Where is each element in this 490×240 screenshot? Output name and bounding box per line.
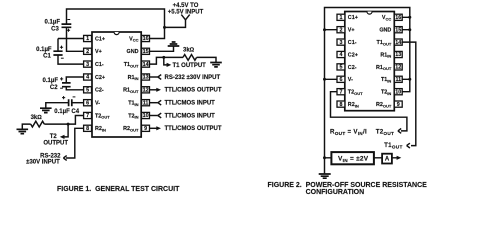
svg-text:T1OUT: T1OUT: [377, 40, 392, 46]
svg-text:T2IN: T2IN: [381, 90, 391, 96]
svg-text:±30V INPUT: ±30V INPUT: [26, 160, 60, 166]
svg-text:C2+: C2+: [95, 75, 105, 81]
svg-text:R1OUT: R1OUT: [376, 65, 392, 71]
svg-text:T2OUT: T2OUT: [95, 113, 110, 119]
svg-text:3: 3: [86, 62, 89, 68]
svg-text:12: 12: [395, 65, 401, 71]
svg-text:15: 15: [143, 49, 149, 55]
svg-text:R2IN: R2IN: [348, 102, 359, 108]
svg-text:R2OUT: R2OUT: [376, 102, 392, 108]
svg-text:15: 15: [395, 27, 401, 33]
svg-text:GND: GND: [127, 49, 139, 55]
svg-text:T1OUT: T1OUT: [124, 62, 139, 68]
svg-text:C1: C1: [43, 53, 51, 59]
svg-text:0.1µF: 0.1µF: [45, 20, 61, 26]
svg-text:10: 10: [395, 89, 401, 95]
svg-text:GND: GND: [379, 28, 391, 34]
svg-text:TTL/CMOS INPUT: TTL/CMOS INPUT: [165, 113, 216, 119]
svg-text:V+: V+: [95, 49, 102, 55]
svg-text:2: 2: [340, 27, 343, 33]
svg-text:10: 10: [143, 113, 149, 119]
svg-text:R1IN: R1IN: [128, 75, 139, 81]
svg-text:TTL/CMOS OUTPUT: TTL/CMOS OUTPUT: [165, 126, 222, 132]
svg-text:5: 5: [86, 88, 89, 94]
svg-text:7: 7: [340, 89, 343, 95]
svg-text:C2-: C2-: [348, 65, 357, 71]
svg-text:T2: T2: [50, 134, 58, 140]
svg-text:C1-: C1-: [348, 40, 357, 46]
svg-text:1: 1: [340, 15, 343, 21]
svg-text:FIGURE 1. GENERAL TEST CIRCUI: FIGURE 1. GENERAL TEST CIRCUIT: [57, 186, 180, 193]
svg-text:C1-: C1-: [95, 62, 104, 68]
svg-text:C1+: C1+: [348, 15, 358, 21]
svg-text:R1OUT: R1OUT: [123, 88, 139, 94]
svg-text:4: 4: [340, 52, 343, 58]
svg-text:VCC: VCC: [382, 15, 391, 21]
svg-text:4: 4: [86, 75, 89, 81]
svg-text:C2-: C2-: [95, 88, 104, 94]
svg-text:T2OUT: T2OUT: [348, 90, 363, 96]
svg-text:3kΩ: 3kΩ: [183, 48, 195, 54]
svg-text:1: 1: [86, 36, 89, 42]
svg-text:6: 6: [86, 100, 89, 106]
svg-text:A: A: [385, 157, 390, 163]
svg-text:9: 9: [144, 126, 147, 132]
svg-text:0.1µF: 0.1µF: [36, 47, 52, 53]
svg-text:OUTPUT: OUTPUT: [43, 141, 68, 147]
svg-text:CONFIGURATION: CONFIGURATION: [306, 189, 365, 196]
svg-text:16: 16: [143, 36, 149, 42]
svg-text:R1IN: R1IN: [380, 52, 391, 58]
svg-text:0.1µF C4: 0.1µF C4: [54, 109, 79, 115]
svg-text:R2IN: R2IN: [95, 126, 106, 132]
svg-text:5: 5: [340, 65, 343, 71]
svg-text:C1+: C1+: [95, 36, 105, 42]
svg-text:T1IN: T1IN: [381, 77, 391, 83]
svg-text:R2OUT: R2OUT: [123, 126, 139, 132]
svg-text:V-: V-: [95, 101, 100, 107]
svg-text:2: 2: [86, 49, 89, 55]
svg-text:12: 12: [143, 88, 149, 94]
svg-text:T1IN: T1IN: [128, 101, 138, 107]
svg-text:TTL/CMOS INPUT: TTL/CMOS INPUT: [165, 101, 216, 107]
svg-text:C2+: C2+: [348, 52, 358, 58]
svg-text:11: 11: [395, 77, 401, 83]
svg-text:RS-232 ±30V INPUT: RS-232 ±30V INPUT: [165, 75, 221, 81]
svg-text:C2: C2: [50, 85, 58, 91]
svg-text:V+: V+: [348, 28, 355, 34]
svg-text:8: 8: [340, 102, 343, 108]
svg-text:T1 OUTPUT: T1 OUTPUT: [173, 63, 207, 69]
svg-text:3: 3: [340, 40, 343, 46]
svg-text:T2IN: T2IN: [128, 113, 138, 119]
svg-text:7: 7: [86, 113, 89, 119]
svg-text:14: 14: [395, 40, 401, 46]
svg-text:11: 11: [143, 100, 149, 106]
svg-text:8: 8: [86, 126, 89, 132]
svg-text:TTL/CMOS OUTPUT: TTL/CMOS OUTPUT: [165, 88, 222, 94]
svg-text:3kΩ: 3kΩ: [31, 115, 43, 121]
svg-text:16: 16: [395, 15, 401, 21]
svg-text:0.1µF: 0.1µF: [43, 78, 59, 84]
svg-text:+5.5V INPUT: +5.5V INPUT: [168, 9, 204, 15]
svg-text:13: 13: [395, 52, 401, 58]
svg-text:C3: C3: [51, 27, 59, 33]
svg-text:14: 14: [143, 62, 149, 68]
svg-text:6: 6: [340, 77, 343, 83]
svg-text:V-: V-: [348, 77, 353, 83]
svg-text:9: 9: [397, 102, 400, 108]
svg-text:VCC: VCC: [129, 36, 138, 42]
svg-text:13: 13: [143, 75, 149, 81]
svg-text:+4.5V TO: +4.5V TO: [173, 3, 199, 9]
